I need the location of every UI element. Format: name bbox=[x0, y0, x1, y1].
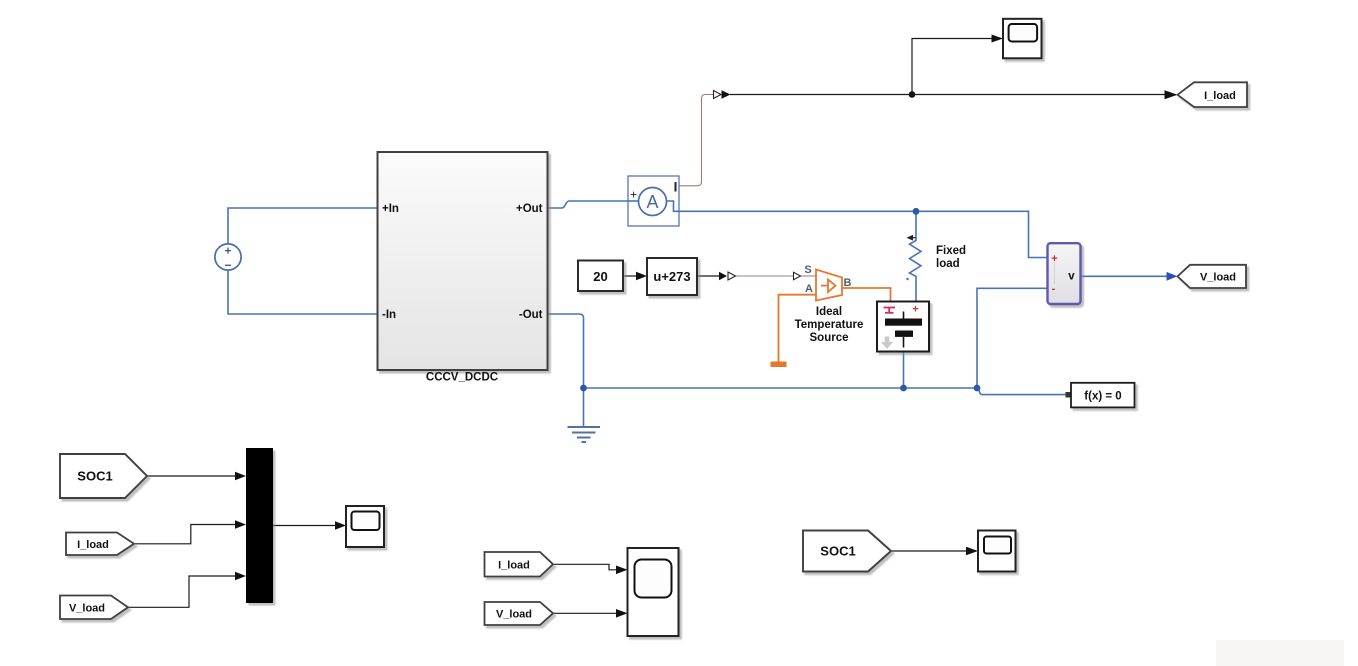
svg-text:I_load: I_load bbox=[498, 560, 530, 572]
svg-text:Temperature: Temperature bbox=[795, 319, 864, 331]
svg-text:V_load: V_load bbox=[1200, 272, 1236, 284]
svg-text:I_load: I_load bbox=[1204, 90, 1236, 102]
svg-text:+: + bbox=[912, 304, 918, 316]
svg-text:S: S bbox=[804, 264, 811, 276]
svg-text:load: load bbox=[936, 258, 960, 270]
svg-text:B: B bbox=[844, 277, 852, 289]
svg-text:-: - bbox=[1052, 283, 1056, 295]
svg-text:SOC1: SOC1 bbox=[77, 469, 112, 484]
svg-text:u+273: u+273 bbox=[653, 269, 690, 284]
svg-text:SOC1: SOC1 bbox=[820, 544, 855, 559]
svg-text:Ideal: Ideal bbox=[816, 306, 842, 318]
svg-text:CCCV_DCDC: CCCV_DCDC bbox=[426, 372, 498, 384]
svg-text:Fixed: Fixed bbox=[936, 245, 966, 257]
svg-text:-Out: -Out bbox=[519, 309, 543, 321]
svg-text:v: v bbox=[1068, 271, 1075, 283]
svg-text:A: A bbox=[646, 192, 658, 212]
svg-text:+: + bbox=[630, 188, 637, 202]
svg-text:V_load: V_load bbox=[69, 603, 105, 615]
svg-text:20: 20 bbox=[593, 269, 607, 284]
svg-text:+In: +In bbox=[382, 203, 399, 215]
svg-text:+: + bbox=[1051, 253, 1057, 265]
svg-text:I_load: I_load bbox=[77, 539, 109, 551]
svg-text:f(x) = 0: f(x) = 0 bbox=[1084, 391, 1121, 403]
svg-text:-In: -In bbox=[382, 309, 396, 321]
svg-text:V_load: V_load bbox=[496, 609, 532, 621]
svg-text:Source: Source bbox=[810, 332, 849, 344]
svg-text:+Out: +Out bbox=[516, 203, 543, 215]
svg-text:A: A bbox=[805, 283, 813, 295]
